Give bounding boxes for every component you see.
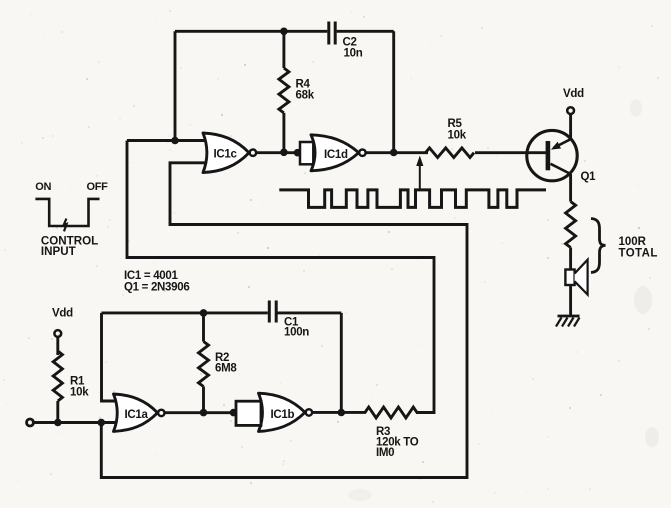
nor-gate IC1b (259, 393, 306, 431)
wire feedback R3 to IC1c (127, 141, 434, 413)
speaker (569, 285, 572, 316)
svg-text:INPUT: INPUT (41, 245, 76, 258)
wire IC1c input 1 (127, 139, 211, 142)
node IC1d input (294, 149, 302, 157)
node R1 bottom (54, 419, 62, 427)
resistor R4 (279, 68, 289, 113)
svg-text:Vdd: Vdd (52, 308, 73, 320)
node C1 right (338, 409, 346, 417)
ground (558, 315, 580, 318)
wire rail2 left (102, 311, 268, 314)
node R2 bottom (200, 409, 208, 417)
transistor Q1 (527, 130, 577, 180)
svg-text:10n: 10n (344, 48, 363, 60)
svg-text:10k: 10k (70, 387, 89, 399)
resistor R3 (365, 407, 417, 418)
waveform (279, 190, 546, 208)
wire top rail (175, 30, 327, 33)
svg-text:10k: 10k (448, 130, 467, 142)
svg-text:OFF: OFF (87, 181, 109, 193)
node R4 bottom (280, 149, 288, 157)
node IC1c input 1 (171, 137, 179, 145)
nor-gate IC1d (311, 135, 359, 171)
resistor R2 (199, 342, 209, 387)
svg-text:100n: 100n (284, 327, 309, 339)
wire IC1b out (312, 411, 366, 414)
svg-text:ON: ON (35, 181, 51, 193)
nor-gate IC1a (114, 394, 158, 431)
capacitor C1 (268, 301, 271, 323)
svg-text:R5: R5 (448, 118, 463, 130)
svg-text:Q1: Q1 (581, 171, 597, 183)
wire IC1a out (165, 411, 237, 414)
svg-text:68k: 68k (296, 90, 315, 102)
wire collector (569, 174, 572, 202)
capacitor C2 (327, 22, 330, 45)
brace (591, 219, 606, 273)
resistor R1 (53, 351, 62, 401)
wire IC1a in1 (102, 313, 124, 401)
nor-gate IC1c (203, 133, 249, 173)
node C2 right (390, 149, 398, 157)
svg-text:IC1c: IC1c (214, 149, 238, 161)
node R2 top (200, 309, 208, 317)
control waveform (35, 199, 99, 226)
node R4 top (280, 28, 288, 36)
node IC1b input (230, 409, 238, 417)
resistor 100R (566, 202, 576, 248)
svg-text:Q1 = 2N3906: Q1 = 2N3906 (124, 282, 189, 294)
svg-text:6M8: 6M8 (215, 363, 237, 375)
svg-text:IC1b: IC1b (271, 409, 295, 421)
svg-text:IC1 = 4001: IC1 = 4001 (124, 270, 178, 282)
resistor R5 (426, 148, 475, 158)
svg-text:IM0: IM0 (376, 447, 394, 459)
wire left drop (174, 31, 177, 140)
svg-text:IC1d: IC1d (324, 149, 348, 161)
wire C2 drop (392, 31, 395, 152)
svg-text:100R: 100R (619, 236, 647, 248)
arrow (419, 163, 421, 190)
wire IC1d out (366, 151, 428, 154)
wire top rail right (337, 30, 394, 33)
pulse tick (64, 219, 67, 232)
wire gating net (101, 163, 467, 478)
input terminal (27, 419, 34, 426)
svg-text:IC1a: IC1a (125, 409, 149, 421)
node input (98, 419, 106, 427)
wire C1 drop (340, 313, 343, 413)
svg-text:Vdd: Vdd (563, 88, 584, 100)
wire rail2 right (278, 311, 342, 314)
wire IC1c out (256, 151, 300, 154)
svg-text:TOTAL: TOTAL (619, 248, 658, 260)
